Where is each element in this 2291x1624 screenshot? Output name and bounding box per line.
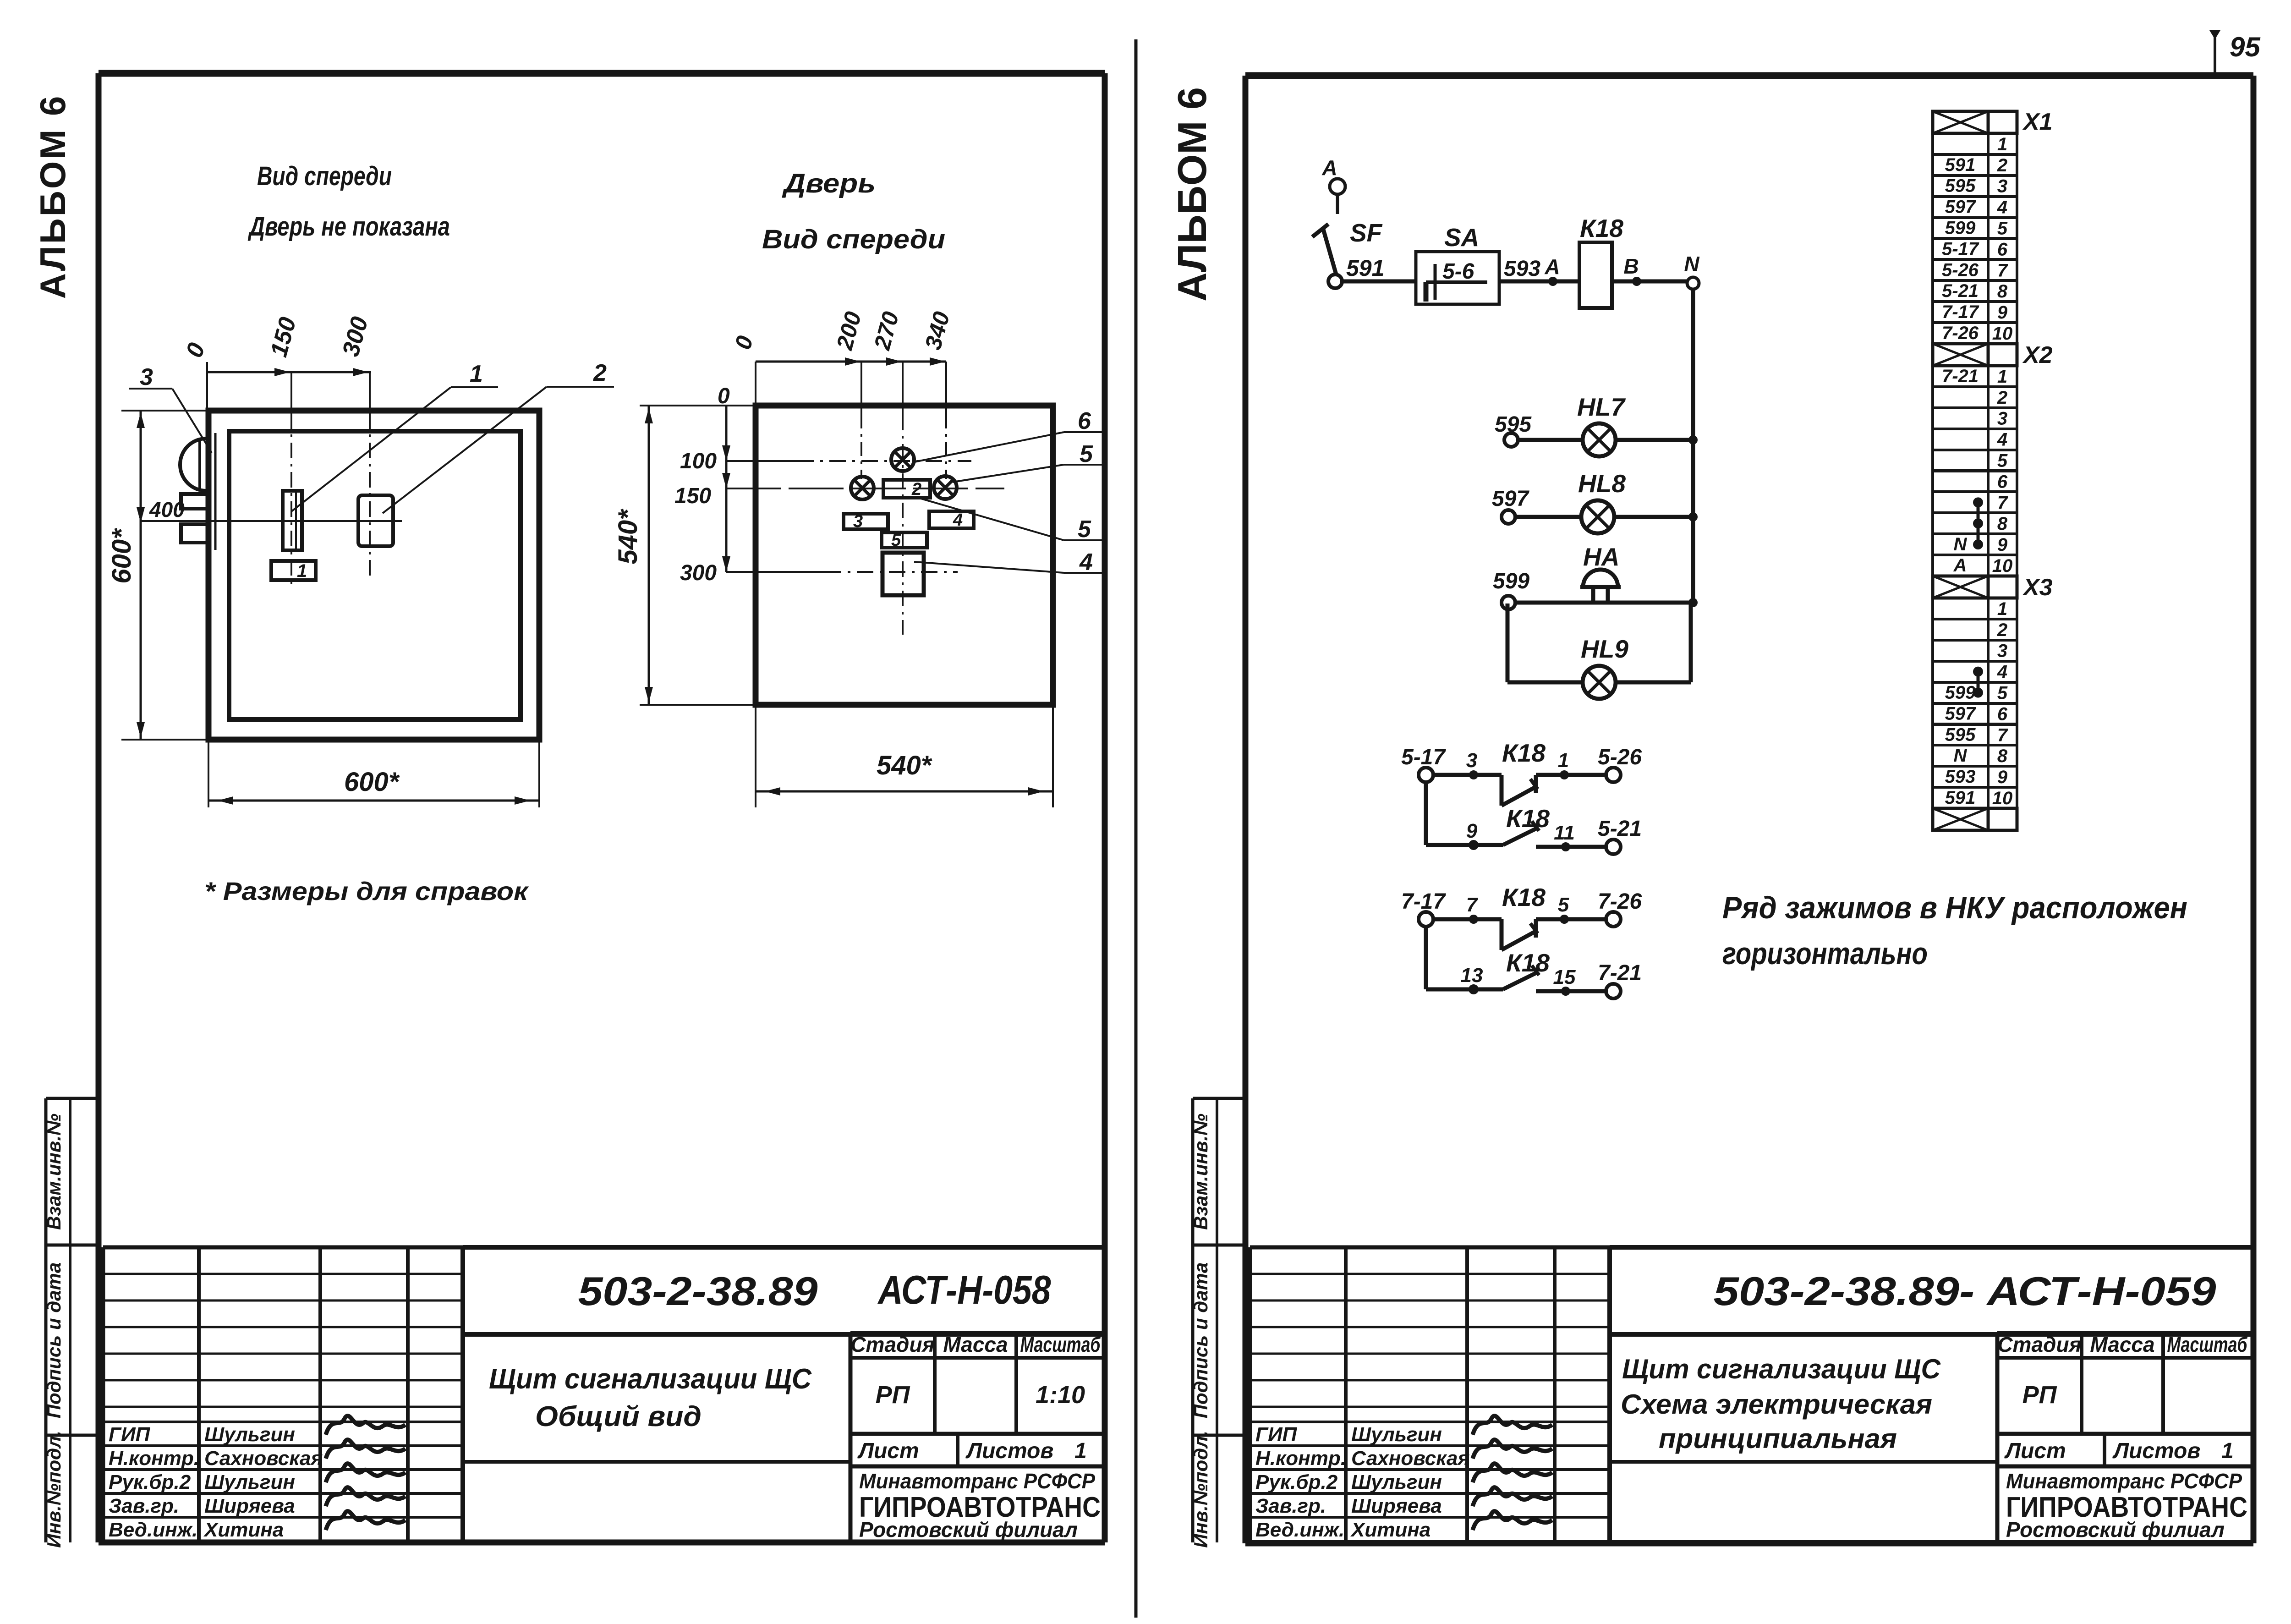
- svg-text:6: 6: [1997, 239, 2008, 259]
- svg-text:597: 597: [1492, 487, 1529, 511]
- svg-text:HL7: HL7: [1577, 393, 1626, 421]
- svg-text:SA: SA: [1444, 223, 1479, 252]
- node A (phase input): [1321, 156, 1345, 214]
- svg-text:7: 7: [1997, 725, 2008, 745]
- svg-text:5-6: 5-6: [1442, 259, 1474, 284]
- node HA junction on N bus: [1688, 598, 1698, 607]
- terminal 7-21: [1598, 961, 1642, 999]
- svg-text:5-21: 5-21: [1598, 817, 1642, 841]
- wire 5-17 to pin 3: [1433, 773, 1502, 777]
- svg-text:Листов: Листов: [965, 1439, 1053, 1463]
- svg-text:5-17: 5-17: [1401, 745, 1446, 769]
- svg-text:591: 591: [1346, 255, 1384, 281]
- svg-text:3: 3: [1997, 409, 2007, 429]
- wire pin 11 to 5-21: [1536, 845, 1606, 849]
- svg-text:Вед.инж.: Вед.инж.: [109, 1519, 197, 1541]
- svg-text:2: 2: [1997, 620, 2007, 640]
- pin 5 junction: [1558, 894, 1569, 924]
- pin 3 junction: [1466, 749, 1478, 779]
- wire 597 to HL8: [1515, 515, 1581, 519]
- svg-text:горизонтально: горизонтально: [1722, 936, 1928, 971]
- svg-text:АЛЬБОМ 6: АЛЬБОМ 6: [33, 94, 73, 299]
- svg-text:Зав.гр.: Зав.гр.: [109, 1495, 179, 1517]
- svg-text:Сахновская: Сахновская: [1351, 1447, 1470, 1470]
- svg-text:5: 5: [1080, 441, 1093, 467]
- svg-text:300: 300: [680, 561, 717, 585]
- svg-text:Инв.№подл.: Инв.№подл.: [1190, 1431, 1211, 1548]
- lamp HL7: [1577, 393, 1626, 456]
- svg-text:1: 1: [1074, 1439, 1087, 1463]
- svg-text:11: 11: [1554, 822, 1575, 844]
- svg-text:Дверь: Дверь: [781, 169, 876, 198]
- wire 7-17 down to pin 13: [1426, 927, 1503, 989]
- terminal 7-26: [1598, 889, 1642, 927]
- relay contact K18 (NO) blade: [1502, 883, 1546, 950]
- svg-text:5: 5: [1997, 219, 2008, 239]
- svg-text:Взам.инв.№: Взам.инв.№: [1190, 1114, 1211, 1230]
- svg-text:ГИП: ГИП: [1255, 1423, 1298, 1446]
- svg-text:Н.контр.: Н.контр.: [109, 1447, 199, 1470]
- wire 595 to HL7: [1518, 438, 1583, 442]
- svg-text:599: 599: [1945, 218, 1976, 238]
- svg-text:Шульгин: Шульгин: [1351, 1423, 1442, 1446]
- svg-text:1: 1: [1997, 134, 2007, 154]
- junction HL8/N bus: [1688, 512, 1698, 521]
- svg-text:593: 593: [1504, 257, 1540, 281]
- svg-text:1: 1: [2221, 1439, 2234, 1463]
- jumper X2:7-9: [1973, 497, 1983, 549]
- relay coil K18: [1579, 214, 1623, 308]
- svg-text:9: 9: [1997, 767, 2008, 787]
- svg-text:Шульгин: Шульгин: [204, 1423, 295, 1446]
- relay contact K18 (NO) blade: [1503, 804, 1550, 845]
- svg-text:599: 599: [1945, 683, 1976, 703]
- terminal 5-21: [1598, 817, 1642, 854]
- svg-text:2: 2: [1997, 388, 2007, 408]
- svg-text:А: А: [1953, 555, 1967, 576]
- svg-text:Ростовский филиал: Ростовский филиал: [859, 1518, 1078, 1542]
- wire 593: [1499, 257, 1579, 281]
- svg-text:7: 7: [1997, 493, 2008, 513]
- svg-text:Вед.инж.: Вед.инж.: [1255, 1519, 1344, 1541]
- svg-text:Листов: Листов: [2112, 1439, 2200, 1463]
- svg-text:Подпись и дата: Подпись и дата: [1190, 1262, 1211, 1418]
- wire HL8 to N bus: [1614, 515, 1693, 519]
- svg-text:3: 3: [1466, 749, 1477, 772]
- svg-text:8: 8: [1997, 514, 2008, 534]
- svg-text:2: 2: [593, 360, 607, 386]
- svg-text:К18: К18: [1580, 214, 1623, 242]
- pin 7 junction: [1466, 894, 1479, 924]
- svg-text:6: 6: [1078, 408, 1091, 434]
- svg-text:Инв.№подл.: Инв.№подл.: [43, 1431, 65, 1548]
- svg-text:7-17: 7-17: [1942, 302, 1979, 322]
- svg-text:7-21: 7-21: [1942, 366, 1979, 386]
- svg-text:X3: X3: [2022, 574, 2053, 601]
- svg-text:591: 591: [1945, 155, 1976, 175]
- svg-text:Шульгин: Шульгин: [204, 1471, 295, 1493]
- svg-text:7-26: 7-26: [1598, 889, 1642, 914]
- svg-text:595: 595: [1945, 176, 1976, 196]
- wire 5-17 down to pin 9: [1426, 782, 1503, 845]
- svg-text:HL8: HL8: [1578, 469, 1626, 498]
- svg-text:599: 599: [1493, 569, 1529, 593]
- svg-text:5: 5: [1558, 894, 1569, 916]
- svg-text:4: 4: [1997, 662, 2007, 682]
- svg-text:5: 5: [1997, 451, 2008, 471]
- svg-text:Общий вид: Общий вид: [535, 1401, 702, 1432]
- svg-text:5-26: 5-26: [1598, 745, 1642, 769]
- relay contact K18 (NO) blade: [1503, 949, 1550, 989]
- svg-text:Рук.бр.2: Рук.бр.2: [109, 1471, 191, 1493]
- svg-text:А: А: [1321, 156, 1337, 180]
- wire N bus: [1691, 289, 1695, 603]
- terminal 5-26: [1598, 745, 1642, 782]
- svg-text:4: 4: [953, 510, 963, 530]
- svg-text:7-17: 7-17: [1401, 889, 1446, 914]
- svg-text:принципиальная: принципиальная: [1659, 1423, 1897, 1454]
- svg-text:503-2-38.89: 503-2-38.89: [578, 1268, 818, 1314]
- svg-text:100: 100: [680, 449, 717, 473]
- svg-text:3: 3: [1997, 641, 2007, 661]
- terminal block X3: [1933, 574, 2053, 830]
- pin 11 junction: [1554, 822, 1575, 851]
- pin 13 junction: [1461, 964, 1483, 994]
- svg-text:В: В: [1623, 254, 1639, 278]
- svg-text:13: 13: [1461, 964, 1483, 987]
- svg-text:595: 595: [1945, 724, 1976, 745]
- terminal 5-17: [1401, 745, 1446, 782]
- svg-text:5: 5: [1078, 516, 1091, 543]
- svg-text:7-26: 7-26: [1942, 323, 1979, 343]
- svg-text:10: 10: [1992, 324, 2013, 344]
- svg-text:8: 8: [1997, 746, 2008, 766]
- sounder HA (bell): [1580, 543, 1621, 601]
- svg-text:4: 4: [1997, 198, 2007, 218]
- svg-text:4: 4: [1079, 549, 1093, 576]
- svg-text:1: 1: [297, 561, 307, 581]
- terminal wire 597: [1492, 487, 1529, 524]
- wire 599 to HA and N bus: [1515, 601, 1693, 605]
- svg-text:Стадия: Стадия: [850, 1333, 934, 1356]
- lamp HL8: [1578, 469, 1626, 533]
- node A (junction): [1544, 255, 1560, 286]
- svg-text:Взам.инв.№: Взам.инв.№: [43, 1114, 65, 1230]
- wire pin 1 to 5-26: [1536, 773, 1606, 777]
- svg-text:Стадия: Стадия: [1997, 1333, 2081, 1356]
- svg-text:Рук.бр.2: Рук.бр.2: [1255, 1471, 1338, 1493]
- wire pin 15 to 7-21: [1536, 989, 1606, 993]
- lamp HL9 parallel branch: [1507, 604, 1691, 699]
- svg-text:4: 4: [1997, 430, 2007, 450]
- svg-text:3: 3: [853, 512, 863, 531]
- svg-text:N: N: [1954, 746, 1968, 766]
- svg-text:600*: 600*: [344, 767, 400, 797]
- svg-text:SF: SF: [1350, 219, 1383, 247]
- svg-text:РП: РП: [876, 1381, 910, 1409]
- svg-text:2: 2: [911, 480, 921, 499]
- svg-text:Хитина: Хитина: [203, 1519, 284, 1541]
- svg-text:1: 1: [1997, 367, 2007, 387]
- svg-text:К18: К18: [1502, 883, 1546, 911]
- svg-text:Дверь не показана: Дверь не показана: [247, 212, 450, 241]
- svg-text:Шульгин: Шульгин: [1351, 1471, 1442, 1493]
- svg-text:ГИП: ГИП: [109, 1423, 151, 1446]
- svg-text:НА: НА: [1583, 543, 1619, 571]
- relay contact K18 (NO) blade: [1502, 739, 1546, 806]
- svg-text:1:10: 1:10: [1036, 1381, 1085, 1409]
- svg-text:591: 591: [1945, 788, 1976, 808]
- svg-text:Хитина: Хитина: [1350, 1519, 1431, 1541]
- svg-text:540*: 540*: [877, 751, 932, 780]
- svg-text:Масштаб: Масштаб: [1020, 1333, 1101, 1356]
- svg-text:Подпись и дата: Подпись и дата: [43, 1262, 65, 1418]
- svg-text:95: 95: [2230, 32, 2261, 62]
- terminal block X2: [1933, 342, 2053, 576]
- svg-text:Лист: Лист: [2004, 1439, 2066, 1463]
- junction HL7/N bus: [1688, 435, 1698, 444]
- svg-text:Ширяева: Ширяева: [1351, 1495, 1442, 1517]
- svg-text:5-26: 5-26: [1942, 260, 1979, 280]
- svg-text:15: 15: [1553, 966, 1576, 988]
- svg-text:Вид спереди: Вид спереди: [762, 225, 945, 254]
- jumper X3:4-5: [1973, 667, 1983, 698]
- svg-text:РП: РП: [2022, 1381, 2057, 1409]
- note: terminal row orientation: [1722, 890, 2187, 971]
- svg-text:N: N: [1954, 534, 1968, 554]
- wire HL7 to N bus: [1616, 438, 1693, 442]
- svg-text:10: 10: [1992, 788, 2013, 808]
- svg-text:Сахновская: Сахновская: [204, 1447, 323, 1470]
- svg-text:* Размеры для справок: * Размеры для справок: [204, 877, 529, 905]
- svg-text:1: 1: [470, 361, 483, 387]
- svg-text:7-21: 7-21: [1598, 961, 1642, 985]
- svg-text:Минавтотранс РСФСР: Минавтотранс РСФСР: [2006, 1469, 2242, 1493]
- svg-text:2: 2: [1997, 155, 2007, 176]
- svg-text:597: 597: [1945, 703, 1976, 724]
- svg-text:5-17: 5-17: [1942, 239, 1979, 259]
- svg-text:Н.контр.: Н.контр.: [1255, 1447, 1346, 1470]
- svg-text:540*: 540*: [613, 509, 643, 565]
- svg-text:Ряд зажимов в НКУ расположен: Ряд зажимов в НКУ расположен: [1722, 890, 2187, 925]
- node B: [1623, 254, 1641, 286]
- svg-text:8: 8: [1997, 281, 2008, 302]
- svg-text:Минавтотранс РСФСР: Минавтотранс РСФСР: [859, 1469, 1095, 1493]
- svg-text:9: 9: [1997, 535, 2008, 555]
- svg-text:5: 5: [1997, 683, 2008, 703]
- terminal block X1: [1933, 109, 2053, 344]
- svg-text:9: 9: [1997, 302, 2008, 323]
- svg-text:6: 6: [1997, 472, 2008, 492]
- node N (neutral terminal): [1684, 252, 1699, 289]
- terminal 7-17: [1401, 889, 1446, 927]
- svg-text:Масштаб: Масштаб: [2167, 1333, 2248, 1356]
- svg-text:Лист: Лист: [857, 1439, 919, 1463]
- svg-text:Масса: Масса: [943, 1333, 1008, 1356]
- svg-text:HL9: HL9: [1581, 635, 1628, 663]
- svg-text:А: А: [1544, 255, 1560, 279]
- svg-text:X2: X2: [2022, 342, 2053, 368]
- svg-text:3: 3: [140, 364, 153, 390]
- svg-text:3: 3: [1997, 176, 2007, 197]
- svg-text:Масса: Масса: [2090, 1333, 2154, 1356]
- svg-text:5-21: 5-21: [1942, 281, 1979, 301]
- terminal wire 599: [1493, 569, 1529, 609]
- svg-text:Щит сигнализации ЩС: Щит сигнализации ЩС: [1622, 1354, 1941, 1384]
- svg-text:1: 1: [1997, 599, 2007, 619]
- wire A-B through coil: [1612, 280, 1688, 284]
- svg-text:К18: К18: [1506, 949, 1550, 977]
- svg-text:Ширяева: Ширяева: [204, 1495, 295, 1517]
- svg-text:N: N: [1684, 252, 1699, 276]
- svg-text:1: 1: [1558, 749, 1569, 772]
- svg-text:АСТ-Н-058: АСТ-Н-058: [877, 1267, 1051, 1312]
- wire pin 5 to 7-26: [1536, 917, 1606, 922]
- wire 591: [1343, 255, 1416, 281]
- svg-text:600*: 600*: [107, 528, 137, 584]
- pin 1 junction: [1558, 749, 1569, 779]
- pin 15 junction: [1553, 966, 1576, 996]
- svg-text:АЛЬБОМ 6: АЛЬБОМ 6: [1169, 87, 1215, 302]
- svg-text:7: 7: [1466, 894, 1479, 916]
- svg-text:Ростовский филиал: Ростовский филиал: [2006, 1518, 2225, 1542]
- svg-text:503-2-38.89- АСТ-Н-059: 503-2-38.89- АСТ-Н-059: [1714, 1268, 2216, 1314]
- svg-text:Щит сигнализации ЩС: Щит сигнализации ЩС: [489, 1363, 812, 1395]
- svg-text:150: 150: [674, 484, 711, 508]
- svg-text:5: 5: [891, 531, 901, 550]
- svg-text:Схема электрическая: Схема электрическая: [1621, 1389, 1932, 1420]
- svg-text:593: 593: [1945, 767, 1976, 787]
- svg-text:К18: К18: [1502, 739, 1546, 767]
- svg-text:Вид спереди: Вид спереди: [257, 161, 392, 191]
- svg-text:9: 9: [1466, 820, 1478, 842]
- terminal wire 595: [1495, 412, 1532, 447]
- svg-text:Зав.гр.: Зав.гр.: [1255, 1495, 1326, 1517]
- pin 9 junction: [1466, 820, 1479, 850]
- circuit breaker SF: [1312, 219, 1383, 288]
- svg-text:7: 7: [1997, 260, 2008, 280]
- svg-text:X1: X1: [2022, 109, 2053, 135]
- switch SA: [1416, 223, 1499, 304]
- svg-text:597: 597: [1945, 197, 1976, 217]
- wire 7-17 to pin 7: [1433, 917, 1502, 922]
- svg-text:6: 6: [1997, 704, 2008, 724]
- svg-text:К18: К18: [1506, 804, 1550, 833]
- svg-text:10: 10: [1992, 556, 2013, 576]
